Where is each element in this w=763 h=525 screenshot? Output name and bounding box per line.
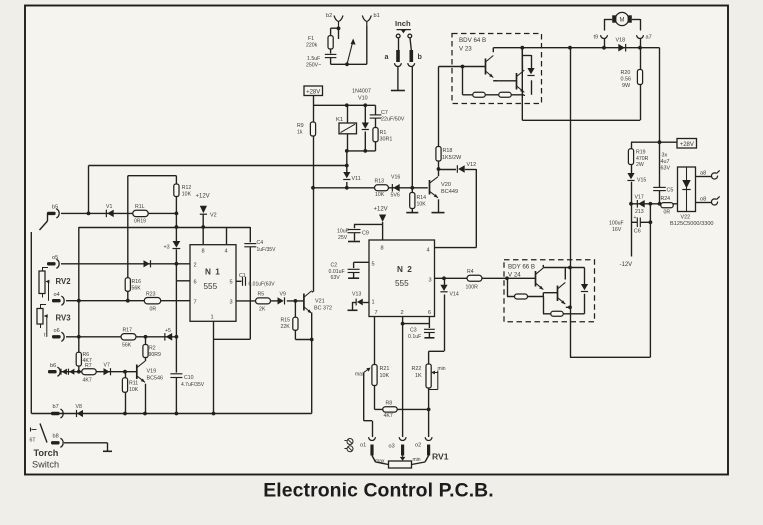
wire b5 hook xyxy=(40,213,48,230)
wire N2 pin5 xyxy=(354,262,369,268)
wiper RV1 xyxy=(400,456,406,461)
wire V23a emitter link xyxy=(493,80,497,82)
wire V23b collector xyxy=(521,48,523,70)
wire 28V column to V21 xyxy=(313,188,315,292)
svg-text:N 1: N 1 xyxy=(205,268,221,277)
svg-text:V9: V9 xyxy=(280,292,286,298)
wire V24a emit link xyxy=(542,293,544,297)
svg-text:100R: 100R xyxy=(466,285,479,291)
ground V13 xyxy=(348,309,358,311)
wire N2 pin2 col xyxy=(402,317,404,438)
resistor R1 xyxy=(373,128,392,143)
svg-text:C1: C1 xyxy=(239,273,246,279)
connector pin b xyxy=(410,50,414,62)
svg-text:V15: V15 xyxy=(637,178,646,184)
junction bus C10 xyxy=(175,412,179,416)
svg-text:470R: 470R xyxy=(636,156,649,162)
svg-text:R19: R19 xyxy=(636,150,646,156)
wire top power row xyxy=(493,47,659,49)
junction a7 xyxy=(638,46,642,50)
diode V10 xyxy=(352,89,371,130)
terminal o2 xyxy=(415,437,432,448)
wire N2 out row xyxy=(435,277,467,279)
label 16V xyxy=(612,227,622,233)
svg-text:V20: V20 xyxy=(441,182,451,188)
wire bottom bus xyxy=(31,413,311,415)
wire R21 bottom xyxy=(374,386,376,410)
label +12V N2 xyxy=(374,207,388,213)
junction R8 right xyxy=(427,408,431,412)
wire V24 base res xyxy=(507,278,543,296)
resistor R14 xyxy=(410,193,427,209)
pin o3 xyxy=(401,445,404,456)
svg-text:1K: 1K xyxy=(415,373,422,379)
terminal o6 xyxy=(52,328,64,341)
terminal b5 xyxy=(47,205,59,219)
label 4u7 xyxy=(661,159,670,165)
svg-text:0.56: 0.56 xyxy=(621,77,632,83)
svg-text:V13: V13 xyxy=(352,292,361,298)
zener V17 xyxy=(635,195,645,216)
svg-text:+28V: +28V xyxy=(680,142,694,148)
wire N1 pin3 row xyxy=(236,300,303,302)
capacitor C10 xyxy=(170,374,204,388)
wire loop right col xyxy=(249,247,251,339)
supply arrow V2 xyxy=(200,206,217,219)
wire V14 column xyxy=(429,278,445,351)
wire R8 row xyxy=(375,408,429,410)
wire b5 row xyxy=(61,212,176,214)
wire a to ground xyxy=(397,67,399,91)
label t2 xyxy=(44,333,46,339)
wire V24 bottom xyxy=(543,297,585,314)
svg-text:V 24: V 24 xyxy=(508,272,521,279)
svg-text:0.1uF: 0.1uF xyxy=(408,334,421,340)
terminal o5 xyxy=(47,255,59,269)
svg-text:4u7: 4u7 xyxy=(661,159,670,165)
junction x522 top xyxy=(520,46,524,50)
IC N1 555 xyxy=(190,245,236,322)
wire 28V column upper xyxy=(313,105,315,122)
wire col to pin6 xyxy=(176,264,190,337)
wire o4 row xyxy=(66,300,190,302)
svg-text:0R: 0R xyxy=(664,210,671,216)
svg-text:8: 8 xyxy=(381,246,384,252)
svg-text:R8: R8 xyxy=(386,401,393,407)
wire to a8 xyxy=(696,176,712,178)
label 100uF xyxy=(609,221,624,227)
wire V21 collector xyxy=(312,291,313,293)
resistor V24 r1 xyxy=(515,294,528,299)
junction V23 base res xyxy=(461,65,465,69)
torch switch arm xyxy=(40,424,47,443)
label b xyxy=(418,52,423,61)
svg-text:+5: +5 xyxy=(165,328,171,334)
svg-text:1N4007: 1N4007 xyxy=(352,89,371,95)
pin o1 xyxy=(370,445,373,456)
connector pin a xyxy=(396,50,400,62)
resistor R16 xyxy=(125,278,141,292)
wire V24a coll xyxy=(543,265,584,268)
wire V24a to V24b xyxy=(543,292,557,294)
capacitor C1 xyxy=(239,273,275,288)
svg-text:M: M xyxy=(620,18,625,24)
svg-text:10K: 10K xyxy=(129,387,139,393)
svg-text:R12: R12 xyxy=(182,185,192,191)
svg-text:C3: C3 xyxy=(410,328,417,334)
resistor R2 xyxy=(143,345,161,359)
svg-text:30R1: 30R1 xyxy=(380,137,393,143)
svg-text:4K7: 4K7 xyxy=(384,413,393,419)
transistor V19 xyxy=(137,361,163,382)
resistor R24 xyxy=(661,196,674,216)
junction V11 bottom xyxy=(345,186,349,190)
wire V23a collector up xyxy=(492,48,494,53)
svg-text:b1: b1 xyxy=(374,13,380,19)
capacitor C4 xyxy=(306,54,336,68)
wire C5 column xyxy=(659,142,661,204)
zener V16 xyxy=(391,175,401,199)
svg-text:2W: 2W xyxy=(636,162,644,168)
label +12V N1 xyxy=(196,194,210,200)
svg-text:o3: o3 xyxy=(389,444,395,450)
resistor R4 xyxy=(466,269,483,291)
svg-text:3x: 3x xyxy=(662,153,668,159)
wire inner diode col xyxy=(531,55,533,95)
wire left col xyxy=(30,232,32,414)
relay contact fixed stub xyxy=(338,28,340,39)
wire 28V down xyxy=(313,96,315,106)
junction o6 left col xyxy=(77,335,81,339)
terminal o4 xyxy=(52,292,64,305)
wire o2 to RV1 xyxy=(412,456,429,465)
svg-text:10K: 10K xyxy=(380,373,390,379)
junction switch arm xyxy=(345,62,349,66)
svg-text:R20: R20 xyxy=(621,70,631,76)
svg-text:R13: R13 xyxy=(375,179,385,185)
wire to o8 xyxy=(696,202,712,204)
svg-text:7: 7 xyxy=(194,300,197,306)
wire C4 down xyxy=(330,58,332,65)
svg-text:56K: 56K xyxy=(132,286,142,292)
svg-text:B125C5000/3300: B125C5000/3300 xyxy=(670,221,714,227)
wire R12 bottom xyxy=(175,197,177,228)
wire V23b emitter down xyxy=(523,95,525,96)
junction o6 row x176 xyxy=(175,335,179,339)
junction emitter R15 xyxy=(310,338,314,342)
svg-text:22uF/50V: 22uF/50V xyxy=(381,117,405,123)
wire main vertical xyxy=(570,48,572,358)
diode o5 xyxy=(144,260,151,267)
svg-text:555: 555 xyxy=(395,279,409,288)
junction bus V19 xyxy=(143,412,147,416)
wire V24b coll xyxy=(564,268,566,280)
svg-text:o1: o1 xyxy=(360,443,366,449)
svg-text:1: 1 xyxy=(372,300,375,306)
svg-text:1k: 1k xyxy=(297,130,303,136)
terminal b8 xyxy=(51,434,63,448)
svg-text:R9: R9 xyxy=(297,123,304,129)
capacitor C5 xyxy=(653,187,673,193)
resistor R9 xyxy=(297,122,316,136)
svg-text:3: 3 xyxy=(429,278,432,284)
module box BDY66B xyxy=(504,260,595,322)
terminal a8 xyxy=(700,170,720,179)
ground b8 xyxy=(103,450,112,452)
svg-text:V22: V22 xyxy=(681,215,691,221)
wire col to C10 xyxy=(175,337,177,373)
diode V14 xyxy=(440,285,458,298)
svg-text:25V: 25V xyxy=(338,235,348,241)
svg-text:min: min xyxy=(413,457,421,463)
svg-text:10K: 10K xyxy=(417,202,427,208)
svg-text:V1: V1 xyxy=(106,204,112,210)
diode b6 b xyxy=(68,369,74,375)
junction right col xyxy=(658,140,662,144)
svg-text:C9: C9 xyxy=(362,231,369,237)
relay K1 coil xyxy=(336,117,357,134)
svg-text:+: + xyxy=(634,215,637,221)
resistor R5 xyxy=(256,292,271,313)
junction bus pin1 xyxy=(212,412,216,416)
svg-text:2K: 2K xyxy=(259,307,266,313)
wire a pin xyxy=(398,38,400,50)
wire R14 to ground xyxy=(411,209,413,213)
svg-text:min: min xyxy=(438,366,446,372)
label -12V xyxy=(620,262,633,268)
wire V20 emitter xyxy=(438,199,440,212)
svg-text:10K: 10K xyxy=(182,192,192,198)
wire V10 column xyxy=(364,105,366,151)
svg-text:220k: 220k xyxy=(306,43,318,49)
wire N2 pin6 col xyxy=(403,317,430,329)
svg-text:10uF: 10uF xyxy=(337,229,349,235)
resistor R11 xyxy=(122,378,138,393)
junction o5 row xyxy=(175,262,179,266)
svg-text:R21: R21 xyxy=(380,366,390,372)
svg-text:V19: V19 xyxy=(147,369,157,375)
wire V23 base in xyxy=(439,66,486,68)
wire loop bottom to pin1 xyxy=(214,338,251,340)
svg-text:56K: 56K xyxy=(122,343,132,349)
svg-text:K1: K1 xyxy=(336,117,343,123)
wire rail left drop xyxy=(88,166,90,214)
svg-text:555: 555 xyxy=(204,282,218,291)
wire R16 col xyxy=(127,176,129,301)
svg-text:o8: o8 xyxy=(700,197,706,203)
terminal o8 xyxy=(700,196,720,205)
wire minus column xyxy=(631,204,633,257)
wire C7 column xyxy=(375,105,377,151)
svg-text:2: 2 xyxy=(194,263,197,269)
svg-text:BDY 66 B: BDY 66 B xyxy=(508,264,535,271)
inch bracket xyxy=(397,30,411,34)
wire C9 top xyxy=(354,224,356,228)
transistor V24a xyxy=(536,268,544,290)
capacitor C7 xyxy=(370,110,405,123)
wire 28V right rail xyxy=(631,141,677,143)
torch contact mark xyxy=(30,428,37,444)
wire to F1 xyxy=(330,28,332,35)
svg-text:BC546: BC546 xyxy=(147,376,163,382)
svg-text:C4: C4 xyxy=(257,240,264,246)
resistor R22 xyxy=(412,364,446,388)
svg-text:b8: b8 xyxy=(53,434,59,440)
resistor V23 r2 xyxy=(499,92,512,97)
wire R19 column xyxy=(631,142,633,173)
svg-text:0.01uF: 0.01uF xyxy=(329,269,345,275)
svg-text:R15: R15 xyxy=(281,318,291,324)
junction b5 col176 xyxy=(175,212,179,216)
svg-text:1uF/35V: 1uF/35V xyxy=(257,247,277,253)
supply arrow V_N2 xyxy=(379,215,386,223)
svg-text:V7: V7 xyxy=(104,363,110,369)
junction b2 node xyxy=(337,27,341,31)
wire C3 bottom xyxy=(428,333,430,338)
svg-text:+28V: +28V xyxy=(306,89,320,95)
svg-text:t9: t9 xyxy=(594,35,599,41)
diode V3 xyxy=(173,241,181,249)
ground a xyxy=(391,90,405,92)
svg-text:b5: b5 xyxy=(52,205,58,211)
wire N1 pin8 col xyxy=(202,227,204,245)
wire bottom of contact xyxy=(331,63,367,65)
wire K1 leads xyxy=(347,105,349,151)
junction bus R11 xyxy=(123,412,127,416)
terminal t9 xyxy=(594,35,608,41)
wire C9 bottom xyxy=(354,233,356,241)
resistor R1L xyxy=(133,204,149,225)
resistor R8 xyxy=(383,401,398,420)
svg-text:V14: V14 xyxy=(450,292,459,298)
diode V13 xyxy=(352,292,363,306)
terminal b2 xyxy=(326,13,343,26)
wire V20 collector xyxy=(438,169,440,176)
svg-text:Switch: Switch xyxy=(32,460,59,470)
junction b line R14 xyxy=(410,186,414,190)
svg-text:90R9: 90R9 xyxy=(149,352,162,358)
capacitor C3 xyxy=(408,328,435,341)
junction R15 top xyxy=(294,299,298,303)
resistor V24 r2 xyxy=(551,311,564,316)
ground C9 xyxy=(348,241,360,243)
svg-text:R1L: R1L xyxy=(135,204,145,210)
svg-text:7: 7 xyxy=(375,310,378,316)
svg-text:C6: C6 xyxy=(634,229,641,235)
wire b6 row xyxy=(61,371,137,373)
wire R11 col xyxy=(125,372,127,414)
svg-text:4: 4 xyxy=(427,248,430,254)
diode V15 xyxy=(627,173,646,184)
diode V1 xyxy=(106,204,114,217)
svg-text:V8: V8 xyxy=(76,404,82,410)
wire to V12 xyxy=(439,169,457,171)
svg-text:V 23: V 23 xyxy=(459,46,472,53)
wire long rail xyxy=(89,165,347,167)
junction V10 bottom xyxy=(363,149,367,153)
wire b column to V16 node xyxy=(411,67,413,188)
svg-text:63V: 63V xyxy=(661,166,671,172)
svg-text:BC449: BC449 xyxy=(441,189,458,195)
junction bus V2 xyxy=(201,225,205,229)
capacitor C6 xyxy=(634,215,641,235)
svg-text:10K: 10K xyxy=(375,192,385,198)
potentiometer RV3 xyxy=(37,305,71,337)
resistor V23 r1 xyxy=(473,92,486,97)
diode V9 xyxy=(278,292,286,305)
wire R20 bottom loop xyxy=(522,85,640,121)
wire o6 row xyxy=(66,336,176,338)
svg-text:o2: o2 xyxy=(415,443,421,449)
svg-text:63V: 63V xyxy=(331,275,341,281)
wire V12 to N2 pin4 xyxy=(435,169,477,248)
wire R18 column xyxy=(438,67,440,170)
wire t9 drop xyxy=(604,39,606,48)
junction V12 node xyxy=(437,167,441,171)
wire motor right xyxy=(632,19,641,31)
wire V13 down xyxy=(353,302,356,310)
wire relay bottom rail xyxy=(348,150,376,152)
svg-text:8: 8 xyxy=(202,249,205,255)
svg-text:5V6: 5V6 xyxy=(391,193,400,199)
wiper R22 xyxy=(429,371,438,390)
label +3 xyxy=(164,245,170,251)
svg-text:V16: V16 xyxy=(391,175,400,181)
svg-text:BC 372: BC 372 xyxy=(314,306,332,312)
title xyxy=(263,480,494,502)
svg-text:F1: F1 xyxy=(308,36,314,42)
junction b6 R11 xyxy=(123,370,127,374)
potentiometer RV2 xyxy=(39,267,71,301)
wire R14 top xyxy=(411,188,413,193)
svg-text:1: 1 xyxy=(211,315,214,321)
resistor R6 xyxy=(76,352,92,366)
transistor V21 xyxy=(304,291,332,314)
terminal o3 xyxy=(389,437,407,449)
ground C2 xyxy=(348,277,359,279)
pin o2 xyxy=(427,445,430,456)
svg-text:V2: V2 xyxy=(210,213,217,219)
svg-text:16V: 16V xyxy=(612,227,622,233)
junction rail V11 xyxy=(345,164,349,168)
junction b5 rail xyxy=(87,212,91,216)
capacitor C4b xyxy=(244,240,276,253)
svg-text:b6: b6 xyxy=(50,363,56,369)
wire N1 pin5 xyxy=(236,280,242,282)
wire N1 pin4 col xyxy=(226,227,228,245)
wire R20 top xyxy=(640,48,642,70)
svg-text:R23: R23 xyxy=(146,292,156,298)
svg-text:N 2: N 2 xyxy=(397,265,413,274)
resistor R15 xyxy=(281,317,299,330)
junction C6 right xyxy=(649,220,653,224)
label a xyxy=(385,52,390,61)
svg-text:R22: R22 xyxy=(412,366,422,372)
wiper R21 xyxy=(364,368,371,373)
resistor R19 xyxy=(628,149,648,168)
IC N2 555 xyxy=(369,240,435,317)
wire R6 bottom xyxy=(78,366,80,372)
junction K1 coil top xyxy=(345,103,349,107)
svg-text:R14: R14 xyxy=(417,195,427,201)
svg-text:6: 6 xyxy=(428,310,431,316)
svg-text:V21: V21 xyxy=(315,299,325,305)
wire relay top rail xyxy=(313,104,376,106)
svg-text:RV3: RV3 xyxy=(56,314,72,323)
svg-text:+12V: +12V xyxy=(196,194,210,200)
ground V20 xyxy=(432,212,445,214)
hook a xyxy=(395,63,402,66)
